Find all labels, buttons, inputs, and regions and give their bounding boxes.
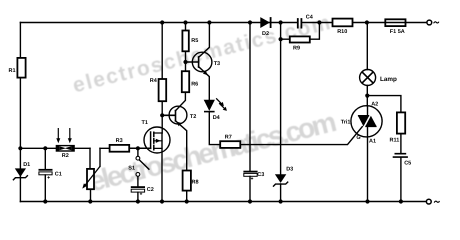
- svg-text:C3: C3: [257, 172, 264, 178]
- svg-text:D4: D4: [213, 115, 221, 121]
- svg-text:Lamp: Lamp: [380, 76, 397, 83]
- svg-text:R4: R4: [150, 78, 158, 84]
- svg-text:D2: D2: [262, 31, 269, 37]
- svg-text:A2: A2: [371, 101, 378, 107]
- svg-text:R6: R6: [191, 82, 198, 88]
- svg-text:F1 5A: F1 5A: [390, 29, 405, 35]
- svg-text:D3: D3: [286, 166, 293, 172]
- svg-text:Tri1: Tri1: [341, 120, 351, 126]
- svg-text:R10: R10: [337, 29, 347, 35]
- svg-text:R7: R7: [225, 135, 232, 141]
- svg-text:R1: R1: [9, 68, 16, 74]
- svg-text:R3: R3: [116, 138, 123, 144]
- svg-text:C5: C5: [404, 160, 411, 166]
- svg-text:R11: R11: [390, 137, 400, 143]
- svg-text:A1: A1: [369, 139, 376, 145]
- svg-text:C2: C2: [147, 187, 154, 193]
- svg-text:R9: R9: [293, 46, 300, 52]
- svg-text:T1: T1: [142, 120, 148, 126]
- svg-text:R8: R8: [192, 180, 199, 186]
- svg-text:T3: T3: [214, 61, 220, 67]
- svg-text:S1: S1: [128, 166, 135, 172]
- svg-text:C4: C4: [306, 14, 314, 20]
- svg-text:C1: C1: [55, 172, 62, 178]
- svg-text:G: G: [356, 135, 360, 141]
- svg-text:R2: R2: [62, 153, 69, 159]
- svg-text:T2: T2: [190, 114, 196, 120]
- svg-text:R5: R5: [191, 38, 198, 44]
- svg-text:D1: D1: [23, 162, 30, 168]
